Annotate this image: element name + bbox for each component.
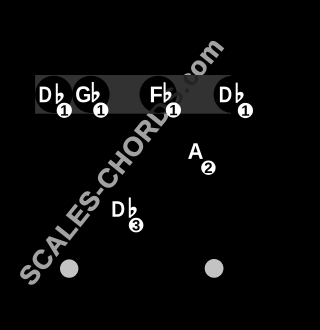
fret marker dot left [60, 259, 78, 277]
note name Db s1 [40, 87, 52, 103]
note disk A string5 fret2 [177, 135, 214, 172]
finger circle 1 string1 [57, 103, 72, 118]
flat sign Db s6 [236, 83, 244, 103]
watermark SCALES-CHORDS.com light copy [20, 41, 223, 284]
finger circle 1 string6 [238, 103, 253, 118]
note name A s5 [188, 143, 203, 159]
barre band at fret 1 [35, 75, 231, 114]
note disk Db string1 [35, 76, 72, 113]
note name Fb s4 [151, 87, 162, 103]
finger number 1 s4 [170, 105, 177, 115]
finger circle 2 string5 [201, 161, 215, 175]
flat sign Gb s2 [92, 82, 100, 102]
finger number 1 s1 [61, 105, 68, 115]
finger circle 3 string3 [129, 218, 144, 233]
finger circle 1 string2 [93, 103, 108, 118]
flat sign Fb s4 [164, 82, 172, 102]
fret marker dot right [205, 259, 224, 278]
note name Gb s2 [76, 86, 90, 102]
watermark dark copy over band [22, 39, 225, 282]
note disk Db string3 fret3 [106, 192, 143, 229]
finger number 1 s2 [98, 105, 105, 115]
note disk Gb string2 [72, 76, 109, 113]
finger number 1 s6 [242, 106, 249, 116]
finger circle 1 string4 [166, 102, 181, 117]
finger number 2 s5 [205, 163, 212, 174]
finger number 3 s3 [132, 220, 139, 231]
note disk Db string6 [214, 76, 251, 113]
note disk Fb string4 [140, 76, 177, 113]
flat sign Db s1 [56, 83, 64, 103]
flat sign Db s3 [129, 198, 137, 218]
note name Db s3 [113, 201, 125, 217]
note name Db s6 [220, 87, 232, 103]
